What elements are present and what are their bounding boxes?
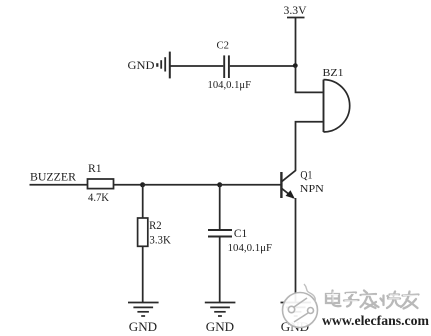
capacitor C1 bbox=[208, 228, 248, 240]
watermark text dianzifashaoyou bbox=[326, 291, 419, 309]
wire: 3.3V rail down to node A bbox=[295, 18, 297, 67]
buzzer BZ1 bbox=[323, 68, 350, 132]
wire: R2 bottom to ground bbox=[142, 246, 144, 302]
node B (junction dot R1 / R2) bbox=[140, 182, 145, 187]
wire: left GND to C2 left plate bbox=[170, 65, 223, 67]
svg-text:GND: GND bbox=[129, 320, 157, 334]
watermark text highlights bbox=[327, 292, 419, 303]
svg-text:R2: R2 bbox=[149, 220, 162, 232]
svg-text:GND: GND bbox=[128, 58, 155, 72]
svg-text:4.7K: 4.7K bbox=[88, 192, 110, 204]
wire: node B down to R2 top bbox=[142, 185, 144, 218]
wire: C2 right plate to node A bbox=[230, 65, 296, 67]
capacitor C2 bbox=[217, 41, 230, 78]
svg-text:BZ1: BZ1 bbox=[323, 68, 344, 79]
svg-text:NPN: NPN bbox=[300, 183, 324, 195]
node C (junction dot R1 / C1) bbox=[217, 182, 222, 187]
ground (below R2) bbox=[128, 303, 159, 334]
ground (below Q1 emitter, partly hidden by watermark) bbox=[281, 303, 312, 334]
svg-text:104,0.1μF: 104,0.1μF bbox=[208, 80, 252, 91]
svg-text:C2: C2 bbox=[217, 41, 230, 52]
transistor Q1 bbox=[281, 169, 323, 198]
wire: Q1 emitter down to ground bbox=[295, 198, 297, 302]
watermark logo (elecfans) bbox=[283, 284, 318, 328]
wire: R1 right to node B bbox=[114, 184, 144, 186]
power 3.3V bbox=[284, 3, 307, 18]
svg-text:GND: GND bbox=[206, 320, 234, 334]
svg-text:3.3V: 3.3V bbox=[284, 3, 307, 17]
svg-text:www.elecfans.com: www.elecfans.com bbox=[322, 313, 430, 328]
svg-text:104,0.1μF: 104,0.1μF bbox=[228, 243, 273, 254]
svg-text:R1: R1 bbox=[88, 163, 102, 175]
wire: node C down to C1 top plate bbox=[219, 185, 221, 229]
svg-text:BUZZER: BUZZER bbox=[30, 171, 76, 183]
wire: node C to Q1 base bbox=[220, 184, 282, 186]
ground (left, chassis bars) bbox=[128, 52, 170, 79]
wire: node B to node C bbox=[143, 184, 220, 186]
resistor R2 bbox=[138, 218, 162, 246]
node A (junction dot at 3.3V rail / C2) bbox=[293, 63, 298, 68]
ground (below C1) bbox=[205, 303, 236, 334]
resistor R1 bbox=[88, 163, 114, 189]
svg-text:Q1: Q1 bbox=[300, 169, 312, 181]
wire: BUZZER input to R1 left bbox=[30, 184, 88, 186]
wire: C1 bottom plate to ground bbox=[219, 237, 221, 302]
svg-text:3.3K: 3.3K bbox=[149, 234, 171, 246]
wire: node A down and right to buzzer top pin bbox=[296, 66, 323, 92]
wire: buzzer bottom pin left and down to Q1 collector bbox=[296, 122, 323, 171]
svg-text:C1: C1 bbox=[234, 228, 248, 240]
